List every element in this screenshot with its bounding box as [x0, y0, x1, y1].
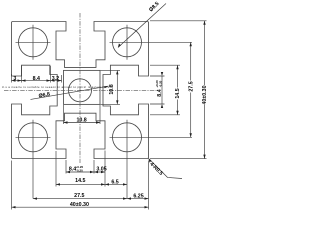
crosshair BL (vert extends to 27.5 dim): [16, 120, 51, 199]
arrows row4 40: [12, 206, 149, 208]
svg-text:27.5: 27.5: [188, 81, 194, 91]
arrows right 8.4: [161, 72, 163, 108]
svg-text:Ø8.5: Ø8.5: [148, 1, 160, 13]
arrow leader 4-R0.5: [149, 159, 152, 163]
ext lines bottom chain: [12, 151, 149, 210]
svg-text:-0.20: -0.20: [158, 80, 162, 87]
text right 8.4 tol: [155, 80, 163, 97]
left chain 3 8.4 3.2: ext lines: [12, 66, 62, 83]
crosshair BR: [110, 120, 193, 199]
svg-text:8.4: 8.4: [33, 76, 40, 82]
svg-text:14.5: 14.5: [175, 88, 181, 98]
dim row1: 8.4 and 3.05: [66, 171, 105, 173]
arrows 10.8 vertical: [116, 70, 118, 104]
svg-text:40±0.30: 40±0.30: [202, 85, 208, 104]
svg-text:10.8: 10.8: [76, 117, 86, 123]
corner hole top-right: [113, 28, 142, 57]
arrows row3 27.5: [33, 197, 127, 199]
svg-text:3: 3: [13, 76, 16, 82]
center hole: [69, 79, 92, 102]
text right 27.5: [188, 81, 195, 93]
arrows right 14.5: [176, 65, 178, 115]
leader diam 8.5: [118, 4, 166, 48]
arrows row1 3.05 (outside): [94, 171, 105, 173]
arrows 10.8 horizontal: [64, 121, 101, 123]
svg-text:3.05: 3.05: [96, 167, 106, 173]
svg-text:Ø6.8: Ø6.8: [38, 92, 50, 100]
dim row4: 40+-0.30: [12, 206, 149, 208]
svg-text:-0.20: -0.20: [76, 168, 83, 172]
corner hole top-left: [19, 28, 48, 57]
svg-text:4-R0.5: 4-R0.5: [148, 161, 164, 177]
arrows right 40: [203, 21, 205, 159]
dim right 8.4: [161, 76, 163, 104]
arrows row2 14.5: [56, 183, 105, 185]
svg-text:8.4: 8.4: [157, 89, 163, 96]
arrows row2 6.5: [105, 183, 127, 185]
arrow leader 8.5: [118, 43, 121, 47]
svg-text:14.5: 14.5: [75, 178, 85, 184]
arrows right 27.5: [190, 42, 192, 137]
svg-text:6.25: 6.25: [133, 193, 143, 199]
crosshair TR (horiz extends to 27.5 dim): [110, 25, 193, 60]
arrows row3 6.25: [127, 197, 149, 199]
arrows row1 8.4: [66, 171, 94, 173]
arrows left chain: [12, 79, 22, 81]
text right 40+-0.30: [201, 85, 208, 105]
corner hole bottom-right: [113, 123, 142, 152]
center block: [64, 70, 101, 104]
leader diam 6.8: [31, 86, 109, 99]
10.8 vertical dim: ext + line: [101, 70, 121, 104]
crosshair TL: [16, 25, 51, 60]
svg-text:6.5: 6.5: [111, 179, 118, 185]
dim right 14.5: [177, 65, 179, 115]
centerline horizontal: [4, 89, 157, 91]
svg-text:40±0.30: 40±0.30: [70, 202, 89, 208]
corner hole bottom-left: [19, 123, 48, 152]
left chain dim line: [12, 80, 62, 82]
svg-text:3.2: 3.2: [52, 76, 59, 82]
arrow leader 6.8: [104, 86, 108, 88]
dim row2: 14.5 and 6.5: [56, 183, 127, 185]
outer profile outline with T-slots: [12, 22, 149, 159]
dim right 27.5: [190, 42, 192, 137]
text right 14.5: [174, 88, 181, 100]
svg-text:27.5: 27.5: [74, 193, 84, 199]
dim right 40+-0.30: [204, 21, 206, 159]
leader 4-R0.5: [149, 158, 183, 178]
svg-text:U.s a muscle is suitable to se: U.s a muscle is suitable to season in an…: [2, 86, 112, 89]
centerline vertical: [79, 13, 81, 163]
dim row3: 27.5 and 6.25: [33, 198, 149, 200]
ext lines right chain: [150, 21, 207, 159]
10.8 horizontal dim: ext + line: [64, 105, 101, 124]
